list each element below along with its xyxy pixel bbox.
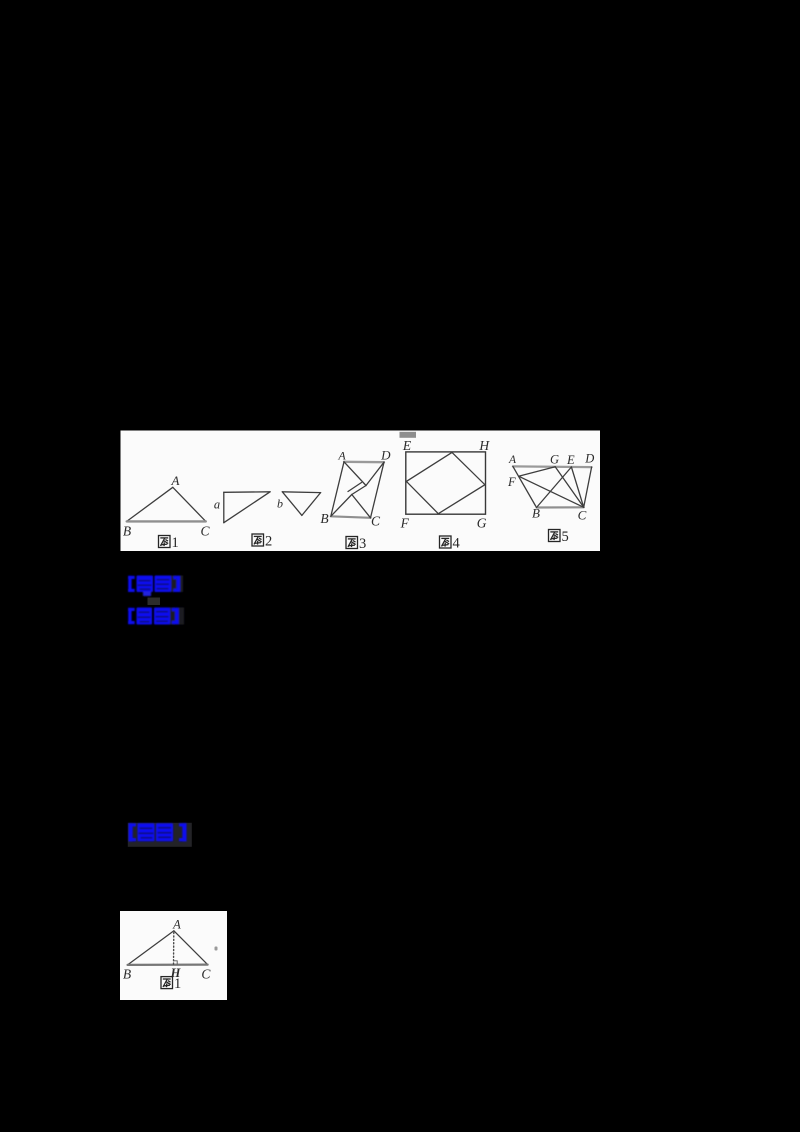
fig3 caption 图3: [346, 536, 366, 552]
fig5 line E-C: [571, 467, 583, 507]
gray smudge below 【考点】: [148, 598, 161, 606]
fig3 line A-M: [344, 462, 366, 486]
fig5 top edge AD: [513, 465, 592, 468]
svg-text:C: C: [371, 514, 381, 529]
fig5 right edge DC: [584, 467, 592, 507]
white figure panel 1: [121, 431, 601, 552]
fig3 top edge AD: [344, 461, 384, 464]
blue label 【分析】: [128, 608, 184, 625]
fig5 bottom edge BC: [537, 506, 584, 508]
svg-text:D: D: [584, 451, 594, 465]
svg-text:D: D: [380, 447, 391, 462]
fig6 triangle side AC: [174, 931, 208, 965]
fig6 triangle base BC: [128, 963, 208, 966]
fig6 dotted altitude AH: [173, 933, 175, 965]
fig6 gray speck: [215, 947, 218, 951]
fig1 triangle base BC: [127, 520, 206, 522]
svg-text:3: 3: [359, 536, 366, 552]
svg-text:G: G: [550, 453, 559, 467]
svg-text:G: G: [477, 516, 487, 531]
svg-text:1: 1: [174, 976, 181, 992]
blue label 【解答】: [129, 823, 187, 841]
fig2 triangle b top edge: [282, 491, 320, 494]
fig5 line G-C: [555, 467, 584, 508]
svg-text:B: B: [123, 524, 131, 539]
fig3 right edge DC: [371, 462, 385, 518]
fig1 caption 图1: [159, 535, 179, 551]
fig3 bottom edge BC: [331, 516, 371, 518]
svg-text:A: A: [171, 473, 180, 488]
fig2 caption 图2: [252, 534, 272, 550]
fig2 triangle a top edge: [224, 491, 270, 494]
svg-text:F: F: [507, 475, 516, 489]
fig5 line F-C: [519, 476, 584, 507]
fig6 right angle mark at H: [174, 961, 178, 965]
fig4 inscribed quadrilateral: [406, 452, 485, 513]
svg-text:E: E: [566, 453, 575, 467]
fig3 ribbon segment M-N: [352, 486, 366, 495]
svg-text:1: 1: [172, 535, 179, 551]
fig1 triangle side AB: [127, 487, 173, 521]
fig3 line C-N: [352, 495, 371, 518]
fig3 line D-M: [366, 462, 384, 485]
svg-text:C: C: [578, 508, 587, 523]
svg-text:4: 4: [453, 536, 461, 552]
fig3 ribbon parallel segment: [348, 483, 362, 492]
svg-text:C: C: [201, 967, 211, 982]
svg-text:5: 5: [562, 529, 569, 545]
svg-text:H: H: [478, 438, 490, 453]
fig5 line B-E: [537, 467, 572, 508]
fig4 caption 图4: [440, 536, 461, 552]
white figure panel 2: [120, 911, 227, 1000]
svg-text:A: A: [172, 917, 181, 931]
fig2 triangle b right edge: [302, 493, 321, 516]
fig3 line B-N: [331, 495, 352, 517]
blue label 【考点】: [128, 576, 183, 597]
svg-text:E: E: [402, 438, 412, 453]
svg-text:a: a: [214, 498, 220, 512]
svg-text:A: A: [508, 454, 517, 466]
fig2 triangle b left edge: [282, 492, 302, 516]
fig5 left edge AB: [513, 466, 537, 507]
fig1 triangle side AC: [173, 487, 206, 521]
gray box behind 【解答】: [128, 823, 192, 847]
svg-text:A: A: [337, 448, 346, 462]
fig5 line F-G: [519, 467, 556, 476]
svg-text:B: B: [320, 511, 328, 526]
fig5 caption 图5: [549, 529, 569, 545]
svg-text:b: b: [277, 497, 283, 511]
fig2 triangle a hypotenuse: [224, 492, 270, 523]
svg-text:B: B: [532, 506, 540, 521]
svg-text:2: 2: [265, 534, 272, 550]
fig6 caption 图1: [161, 976, 181, 992]
svg-text:C: C: [200, 524, 210, 539]
svg-text:F: F: [400, 516, 410, 531]
fig4 rectangle EFGH: [406, 452, 486, 514]
fig3 left edge AB: [331, 462, 344, 517]
svg-text:B: B: [123, 967, 131, 982]
fig6 triangle side AB: [128, 931, 174, 965]
gray scan marker above fig4: [400, 432, 417, 438]
fig2 triangle a left edge: [223, 492, 225, 522]
